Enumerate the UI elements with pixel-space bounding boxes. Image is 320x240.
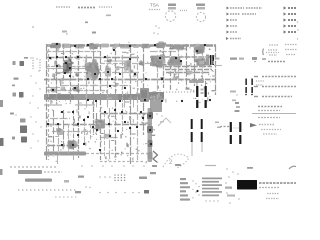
junction j42 [209, 99, 211, 101]
wire vertical v15 [143, 44, 145, 135]
text label drawing number [78, 7, 96, 9]
wire vertical w1 [53, 110, 55, 153]
IC U3 [141, 44, 151, 49]
text label bc dots1 [99, 176, 111, 178]
junction j50 [57, 123, 59, 125]
text label br marks1 [152, 164, 216, 167]
wire vertical v7 [86, 55, 88, 104]
scribble b [156, 113, 164, 122]
resistor R12 [115, 66, 120, 70]
text label left ur [14, 78, 19, 80]
legend right item 5 text [288, 31, 296, 33]
junction j63 [150, 143, 152, 145]
stray mark b [62, 31, 68, 35]
junction j57 [109, 135, 111, 137]
junction j24 [119, 73, 121, 75]
wire vertical w7 [90, 124, 92, 140]
wire rail y57 right [150, 56, 214, 58]
wire rail y145 [47, 145, 78, 147]
text label left a4 [10, 113, 17, 116]
noise dots title area [225, 168, 240, 204]
junction j44 [72, 111, 74, 113]
text label company name [259, 182, 296, 184]
resistor R6 [76, 55, 81, 60]
text label left block2 [21, 137, 27, 143]
legend right item 5 bullet [284, 30, 287, 33]
capacitor C6 plates [230, 122, 232, 144]
junction j58 [124, 121, 126, 123]
note row 5 [258, 106, 282, 108]
svg-text:2: 2 [169, 160, 173, 166]
text label tb squiggle [289, 166, 296, 169]
scan speckle lower [46, 104, 155, 163]
dash mark small [24, 57, 28, 59]
diode D1 [67, 140, 78, 150]
text label left E [20, 119, 26, 123]
note row 3 [254, 86, 296, 88]
text label left 7B [13, 92, 24, 98]
wire rail y90 left [46, 90, 104, 92]
legend item 4 bullet [227, 25, 230, 28]
junction j61 [149, 115, 151, 117]
wire vertical w2 [58, 124, 60, 153]
wire vertical v13 [130, 44, 132, 164]
legend right item 1 bullet [284, 6, 287, 9]
legend right item 4 text [288, 25, 296, 27]
text label bl bar1 [18, 170, 62, 174]
wire rail y57 left [46, 57, 140, 59]
edge mark left mid [0, 169, 3, 175]
text label company sub [259, 187, 279, 189]
junction j39 [144, 99, 146, 101]
wire vertical v23 [215, 45, 217, 95]
wire vertical v19 [178, 44, 180, 84]
connector J1 top [168, 4, 176, 10]
wire rail y63 [100, 63, 150, 65]
wire vertical v1 [46, 44, 48, 160]
junction j64 [83, 119, 85, 121]
junction dot bottom [196, 190, 198, 192]
capacitor C5 plates [201, 119, 203, 142]
text label bc cluster [114, 174, 125, 181]
legend footnote col1 [268, 45, 278, 55]
transformer T1 [85, 59, 100, 80]
legend item 4 text [230, 25, 237, 27]
resistor R7 [55, 64, 61, 68]
stray mark c [85, 15, 111, 24]
junction j1 [56, 43, 58, 45]
text label arrow note [259, 125, 281, 135]
junction j34 [109, 85, 111, 87]
text label titleblock date [267, 193, 279, 195]
wire top bus [46, 44, 216, 46]
scribble a [158, 118, 171, 126]
connector P1 body [206, 55, 209, 66]
parts list column [180, 178, 190, 201]
text label bc row1 [81, 165, 145, 167]
text label bc PC [75, 191, 81, 193]
junction j23 [107, 71, 109, 73]
wire vertical v16 [157, 55, 159, 91]
legend right item 1 text [288, 7, 296, 9]
wire vertical w5 [73, 110, 75, 153]
edge marks right [297, 21, 299, 39]
text label left of caps A [186, 88, 192, 91]
resistor R15 [133, 72, 137, 77]
legend item 5 bullet [227, 31, 230, 34]
junction j45 [104, 111, 106, 113]
resistor R14 [138, 60, 144, 66]
wire vertical v9 [100, 44, 102, 160]
scribble arc [163, 154, 189, 168]
junction j30 [161, 78, 163, 80]
junction j8 [204, 44, 206, 46]
junction j35 [124, 87, 126, 89]
arrow mark [250, 123, 257, 127]
text label cluster top right [230, 57, 266, 62]
junction j40 [161, 100, 163, 102]
transistor Q1 [63, 58, 73, 73]
text label cap values [234, 127, 239, 129]
junction j53 [87, 116, 89, 118]
text label br dash [150, 172, 156, 174]
text label J1 [180, 10, 188, 12]
junction j6 [154, 44, 156, 46]
text label sheet note [56, 6, 70, 8]
relay K1 [195, 58, 206, 66]
text label bc a [78, 176, 84, 178]
wire stubs lower mesh [48, 109, 155, 160]
junction j36 [87, 99, 89, 101]
junction j66 [108, 123, 110, 125]
wire vertical v5 [70, 44, 72, 104]
wire cap stub a [191, 142, 193, 156]
junction j51 [77, 123, 79, 125]
wire cap A feeds [197, 81, 206, 86]
text label mid right row [163, 91, 195, 93]
resistor R10 [60, 78, 64, 82]
wire vertical w10 [104, 113, 106, 158]
resistor R16 [159, 61, 165, 66]
wire bottom rail [44, 152, 150, 156]
junction j54 [61, 144, 63, 146]
connector J2 top [196, 4, 205, 10]
legend right item 3 bullet [284, 18, 287, 21]
junction j33 [74, 87, 76, 89]
junction j22 [94, 73, 96, 75]
junction j5 [129, 45, 131, 47]
text label left h [12, 137, 15, 140]
wire vertical v20 [186, 44, 188, 88]
wire vertical w9 [109, 108, 111, 160]
resistor R13 [129, 69, 134, 73]
resistor R2 [124, 60, 131, 73]
legend right item 2 text [288, 13, 296, 15]
junction j19 [69, 67, 71, 69]
junction j7 [196, 50, 198, 52]
wire vertical v6 [78, 44, 80, 158]
capacitor C7 plates [239, 122, 241, 144]
stray mark d [92, 32, 96, 34]
wire rail blob above caps [189, 80, 204, 83]
wire rail y66 [46, 66, 90, 68]
wire stubs upper mesh [51, 44, 216, 104]
wire vertical v8 [93, 44, 95, 135]
note row 6 underline [252, 111, 296, 114]
junction j43 [61, 111, 63, 113]
resistor R17 [187, 71, 194, 76]
wire stub below rail [58, 155, 74, 164]
wire vertical w3 [63, 110, 65, 145]
text label bc dots2 [85, 186, 91, 188]
wire vertical v14 [137, 55, 139, 160]
fine print block [202, 178, 222, 197]
junction j49 [47, 123, 49, 125]
parts list dots [192, 180, 199, 198]
diode D2 [245, 79, 247, 96]
diode D3 [251, 79, 253, 96]
legend right item 3 text [288, 19, 296, 21]
wire rail y124 [46, 124, 150, 126]
junction j29 [145, 78, 147, 80]
wire vertical v22 [202, 44, 204, 80]
junction j20 [64, 72, 66, 74]
text label titleblock num [266, 198, 279, 200]
junction j3 [87, 44, 89, 46]
resistor R20 [104, 134, 109, 139]
bus blob c [101, 44, 109, 48]
grid noise dots left [29, 57, 41, 148]
scribble c [153, 151, 158, 163]
legend right item 2 bullet [284, 12, 287, 15]
junction j41 [181, 100, 183, 102]
svg-text:TSA: TSA [150, 3, 159, 8]
IC U6 [193, 44, 205, 55]
IC U9 junction mass [140, 88, 162, 112]
resistor R8 [52, 73, 56, 77]
junction j56 [77, 134, 79, 136]
wire vertical v2 [48, 44, 50, 160]
note row 2 [254, 76, 296, 78]
text label bl bar2 [25, 179, 69, 183]
wire vertical v11 [115, 44, 117, 160]
legend item 6 text [230, 38, 241, 40]
wire rail y131 [52, 131, 90, 133]
text label left m [12, 85, 15, 87]
junction j32 [52, 89, 54, 91]
text label bc dots3 [99, 192, 140, 194]
wire bus drop stubs [79, 100, 134, 108]
legend item 6 bullet [226, 37, 229, 40]
junction j68 [136, 126, 138, 128]
text label revision note [99, 6, 112, 8]
junction j27 [99, 78, 101, 80]
junction j38 [119, 100, 121, 102]
junction j14 [129, 58, 131, 60]
junction j11 [65, 56, 67, 58]
vertical strip component column [147, 108, 153, 162]
bus blob a [62, 44, 70, 49]
junction j70 [99, 149, 101, 151]
legend item 1 text [230, 7, 262, 9]
junction j62 [149, 129, 151, 131]
junction j46 [114, 109, 116, 111]
resistor R5 [56, 128, 63, 135]
edge mark left 7 [0, 100, 3, 107]
text label diode [256, 81, 264, 85]
IC U5 [169, 45, 186, 51]
junction j31 [69, 75, 71, 77]
resistor R9 [75, 73, 79, 77]
bus blob b [75, 44, 84, 49]
junction j47 [121, 111, 123, 113]
wire vertical v10 [107, 55, 109, 104]
wire rail y118 [50, 118, 70, 120]
wire cap stub b [201, 142, 203, 152]
text label small right a [230, 91, 238, 102]
wire vertical v17 [163, 44, 165, 88]
wire rail y87 short [46, 87, 60, 89]
junction j37 [95, 100, 97, 102]
transistor Q2 [104, 66, 111, 77]
IC U4 [155, 41, 166, 48]
junction j28 [111, 78, 113, 80]
resistor R3 [72, 87, 80, 92]
junction j48 [140, 111, 142, 113]
wire rail y113 [100, 113, 152, 115]
junction j17 [180, 60, 182, 62]
wire rail y68 short [46, 68, 96, 70]
junction j18 [65, 62, 67, 64]
junction j10 [56, 56, 58, 58]
note row 1 [268, 61, 285, 63]
legend bracket [263, 49, 279, 56]
junction j59 [129, 127, 131, 129]
IC U7 [150, 54, 165, 68]
junction j52 [96, 129, 98, 131]
capacitor C1 polarized bars [210, 55, 214, 65]
text label br dots [205, 200, 218, 201]
wire vertical v12 [122, 55, 124, 135]
text label tb dash [247, 167, 253, 169]
junction j69 [83, 143, 85, 145]
wire vertical v3 [56, 44, 58, 104]
legend item 5 text [230, 31, 237, 33]
wire rail y72 [55, 72, 140, 74]
wire ground bus thick [44, 92, 164, 100]
legend item 3 text [230, 19, 237, 21]
legend item 3 bullet [227, 19, 230, 22]
junction j16 [175, 57, 177, 59]
wire vertical w4 [68, 124, 70, 153]
junction j12 [77, 56, 79, 58]
text label subtitle [149, 9, 160, 11]
wire second rail [46, 51, 176, 53]
junction j65 [92, 126, 94, 128]
IC U8 [167, 56, 182, 66]
resistor R1 [112, 44, 118, 49]
IC U2 [89, 43, 98, 51]
resistor R19 [60, 87, 66, 92]
text label left block1 [20, 126, 27, 134]
stray mark e [153, 25, 160, 35]
resistor R11 [107, 59, 112, 63]
scan speckle upper [47, 42, 215, 105]
wire rail y61 short [104, 60, 128, 62]
wire vertical v18 [170, 44, 172, 91]
text label between caps A [201, 89, 204, 95]
text label right small marks [215, 122, 221, 129]
wire cap feed [220, 126, 229, 128]
junction j2 [74, 45, 76, 47]
transistor Q3 [94, 119, 104, 131]
junction j21 [56, 65, 58, 67]
wire bus stack right [165, 67, 212, 73]
legend item 1 bullet [227, 7, 230, 10]
bus blob d [120, 44, 131, 49]
junction j15 [159, 57, 161, 59]
text label right of C1 [214, 58, 222, 66]
junction j4 [113, 49, 115, 51]
junction j9 [49, 57, 51, 59]
text label bl row1 [10, 166, 58, 168]
wire vertical w6 [84, 118, 86, 145]
wire rail y85 [60, 85, 130, 87]
junction j25 [134, 73, 136, 75]
legend right item 4 bullet [284, 24, 287, 27]
edge mark left 2 [0, 138, 4, 146]
text label above caps [235, 102, 241, 112]
text label bl row4 [55, 196, 78, 198]
capacitor C4 plates [191, 119, 193, 142]
scribble 2 mark [169, 160, 173, 166]
text label bl row3 [18, 189, 78, 191]
junction j60 [142, 117, 144, 119]
junction j13 [104, 56, 106, 58]
wire dashed bottom [100, 161, 143, 163]
bus blob e [133, 44, 139, 48]
text label bc dark [144, 190, 149, 194]
junction j55 [72, 144, 74, 146]
wire rail y79 [44, 79, 215, 81]
legend item 2 bullet [227, 13, 230, 16]
capacitor C2 plates [196, 86, 198, 108]
resistor R18 [173, 76, 179, 80]
wire below-bus stub rail [44, 104, 95, 106]
IC U1 [49, 43, 60, 50]
logo block [237, 180, 257, 190]
dotted run b [39, 59, 40, 71]
legend item 2 text [230, 13, 256, 15]
wire vertical v4 [63, 44, 65, 80]
note row 4 [254, 96, 292, 98]
legend footnote col2 [285, 45, 297, 55]
resistor R4 [50, 87, 56, 92]
text label left b [13, 61, 25, 66]
note row 7 [258, 117, 280, 119]
junction j67 [117, 130, 119, 132]
dotted run a [32, 57, 33, 69]
stray mark a [32, 26, 34, 28]
node A dashed circle [165, 11, 175, 21]
node B dashed circle [196, 12, 205, 21]
wire rail y137 [100, 137, 118, 139]
text label tb 25 [225, 187, 235, 197]
capacitor C3 plates [205, 86, 207, 108]
wire vertical w8 [96, 113, 98, 135]
wire vertical v21 [194, 44, 196, 86]
junction j26 [87, 78, 89, 80]
